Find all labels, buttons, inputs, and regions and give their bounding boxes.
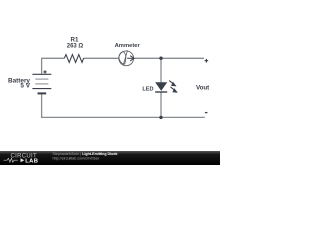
LED cathode bar bbox=[155, 91, 167, 92]
watermark bar bbox=[0, 151, 220, 165]
wire battery bottom lead bbox=[41, 94, 43, 118]
LED emission arrow 2 bbox=[171, 87, 175, 91]
Vout plus marker bbox=[205, 59, 209, 63]
ammeter needle bbox=[123, 50, 127, 64]
svg-text:LAB: LAB bbox=[25, 158, 38, 164]
ammeter dial arc bbox=[119, 52, 125, 65]
svg-text:5 V: 5 V bbox=[20, 83, 30, 90]
wire ammeter to node A bbox=[134, 57, 161, 59]
Vout minus marker bbox=[205, 112, 208, 114]
LED D1 triangle bbox=[155, 82, 167, 91]
resistor R1 bbox=[64, 55, 83, 63]
node junction dot bottom bbox=[159, 116, 162, 119]
node A junction dot top bbox=[159, 57, 162, 60]
wire resistor to ammeter bbox=[84, 57, 119, 59]
wire LED anode lead bbox=[160, 58, 162, 82]
CircuitLab logo arrow bbox=[21, 158, 25, 162]
svg-text:Ammeter: Ammeter bbox=[115, 43, 141, 49]
wire battery top lead bbox=[41, 58, 43, 74]
battery plus sign bbox=[43, 70, 46, 73]
ammeter arrow A bbox=[127, 57, 134, 59]
wire top rail battery to resistor bbox=[41, 57, 64, 59]
ammeter AM1 body bbox=[119, 51, 134, 66]
battery B1 plates bbox=[32, 74, 51, 93]
wire node A to + terminal bbox=[161, 57, 204, 59]
svg-text:263 Ω: 263 Ω bbox=[67, 43, 84, 49]
svg-text:http://circuitlab.com/c/rvh5ax: http://circuitlab.com/c/rvh5ax bbox=[53, 156, 100, 160]
svg-text:Vout: Vout bbox=[196, 84, 209, 91]
svg-text:LED: LED bbox=[142, 86, 153, 92]
CircuitLab logo waveform bbox=[4, 158, 18, 162]
wire LED cathode lead bbox=[160, 92, 162, 117]
wire bottom rail bbox=[41, 116, 205, 118]
LED emission arrow 1 bbox=[169, 81, 173, 85]
